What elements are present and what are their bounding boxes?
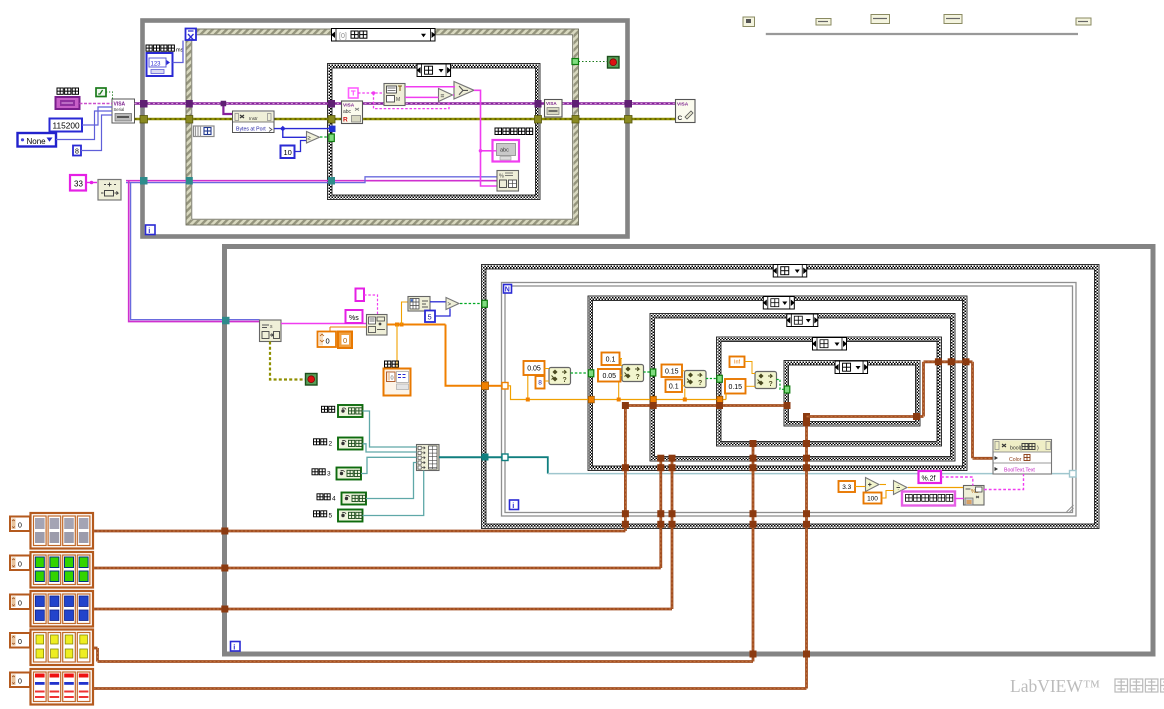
gray divider line top bbox=[766, 33, 1078, 35]
caseA selector bbox=[763, 297, 795, 310]
wire bool2 to build array (teal) bbox=[363, 444, 417, 452]
wire pair magenta horizontal (array out to case1) bbox=[126, 180, 497, 182]
svg-text:Color: Color bbox=[1009, 457, 1022, 463]
numeric constant 0.15 (group3 hi) bbox=[662, 365, 683, 378]
color array 4 (yellow clusters) index box bbox=[10, 633, 30, 648]
brown vertical V4 bbox=[752, 444, 755, 662]
while loop 1 iteration terminal i bbox=[146, 225, 156, 235]
numeric constant 8 (group1 lo) bbox=[536, 376, 545, 389]
purple tunnel on while1 right border bbox=[625, 100, 633, 108]
color array 5 (striped clusters) index box bbox=[10, 673, 30, 688]
teal tunnel while1 left (pair) bbox=[140, 177, 148, 185]
wire green to case B tunnel bbox=[644, 371, 651, 373]
numeric constant 100 bbox=[864, 493, 882, 504]
spreadsheet string to array node (case1) bbox=[497, 171, 519, 192]
svg-text:None: None bbox=[27, 137, 47, 146]
wire bool5 to build array (teal) bbox=[363, 471, 424, 516]
svg-text:i: i bbox=[148, 226, 150, 235]
orange tunnel case A left (bus) bbox=[588, 396, 594, 403]
color array 1 (gray clusters) body bbox=[31, 513, 94, 549]
svg-text:0: 0 bbox=[18, 562, 22, 569]
numeric constant 3.3 bbox=[839, 481, 856, 492]
svg-text:?: ? bbox=[636, 374, 640, 381]
wire comparator to for-loop (green dashed) bbox=[460, 303, 482, 305]
caseB selector bbox=[786, 314, 818, 327]
wire string out to scan node (magenta) bbox=[281, 323, 367, 325]
olive tunnel on case1 right border bbox=[535, 116, 542, 124]
svg-text:100: 100 bbox=[867, 495, 878, 502]
svg-text:5: 5 bbox=[329, 513, 333, 520]
free mini constant 3 top bbox=[871, 15, 890, 24]
numeric constant 0.1 (group3 lo) bbox=[666, 380, 683, 393]
match pattern node bbox=[384, 84, 405, 106]
while loop 1 (serial read loop) border bbox=[143, 21, 628, 237]
label 串口号 (serial port) bbox=[57, 88, 63, 94]
svg-text:2: 2 bbox=[329, 441, 333, 448]
orange bus junction stubs to in-range nodes bbox=[527, 375, 529, 400]
wire 10 to comparator (blue) bbox=[295, 141, 307, 152]
green tunnel case B left bbox=[650, 369, 656, 376]
scan from string node bbox=[367, 315, 388, 336]
boolean control 布尔 bbox=[338, 405, 363, 417]
svg-text:Serial: Serial bbox=[114, 107, 125, 112]
svg-text:BoolText.Text: BoolText.Text bbox=[1004, 468, 1035, 474]
comparator greater-or-equal node bbox=[307, 132, 320, 144]
wires group2 stubs bbox=[620, 358, 623, 360]
free mini constant 5 top bbox=[1076, 18, 1091, 25]
svg-text:R: R bbox=[343, 117, 348, 124]
wire 33 to initialize array (magenta) bbox=[87, 182, 98, 184]
caseD selector bbox=[835, 361, 869, 374]
wire branch to comparator (blue) bbox=[283, 129, 307, 138]
for loop count terminal N bbox=[504, 285, 512, 294]
label 布尔2 bbox=[314, 439, 320, 445]
VISA configure serial port node bbox=[112, 99, 135, 123]
wire pair vertical down to lower loop (magenta) bbox=[129, 181, 260, 322]
olive tunnel on event right border bbox=[572, 116, 579, 124]
svg-text:33: 33 bbox=[74, 180, 83, 189]
divide node bbox=[894, 481, 908, 495]
svg-text:[0]: [0] bbox=[339, 33, 347, 40]
for loop resize corner bbox=[1067, 505, 1074, 512]
numeric constant 0 (first) bbox=[318, 332, 337, 348]
svg-text:abc: abc bbox=[343, 109, 352, 115]
case D frame bbox=[784, 361, 920, 427]
svg-text:8: 8 bbox=[538, 380, 542, 387]
wire orange down to array indicator bbox=[396, 325, 398, 370]
brown wire W1 from color array 1 bbox=[93, 530, 625, 533]
for loop border bbox=[502, 283, 1077, 517]
boolean constant F (green) bbox=[96, 88, 106, 97]
index array node bbox=[408, 297, 430, 312]
svg-text:Inf: Inf bbox=[734, 360, 741, 366]
svg-text:): ) bbox=[1037, 446, 1039, 452]
svg-text:0.1: 0.1 bbox=[606, 356, 616, 363]
color array 4 (yellow clusters) body bbox=[31, 630, 94, 666]
free mini constant 2 top bbox=[816, 19, 831, 26]
case 1 frame bbox=[328, 64, 541, 200]
svg-text:0: 0 bbox=[391, 376, 394, 382]
orange tunnel outer case left bbox=[482, 382, 489, 390]
wire compound output down to buffer indicator (magenta) bbox=[474, 90, 497, 186]
numeric constant 33 bbox=[70, 175, 86, 191]
event structure border bbox=[186, 29, 579, 225]
green tunnel event right border (stop) bbox=[572, 59, 579, 65]
svg-text:=: = bbox=[441, 93, 445, 100]
wire index array to comparator (blue) bbox=[430, 301, 446, 303]
brown wire up right of case D bbox=[922, 362, 925, 417]
brown wire H1 (into case D) bbox=[625, 404, 787, 407]
numeric constant 0.05 (group1 hi) bbox=[524, 361, 545, 375]
numeric constant 0.15 (group4 lo) bbox=[725, 379, 746, 394]
svg-text:0: 0 bbox=[18, 679, 22, 686]
brown wire W2 from color array 2 bbox=[93, 567, 661, 570]
VISA resource name control bbox=[56, 97, 80, 109]
color array 3 (blue clusters) body bbox=[31, 591, 94, 627]
label 布尔 bbox=[322, 406, 328, 412]
wire green to case D tunnel bbox=[777, 380, 785, 390]
svg-text:0.1: 0.1 bbox=[669, 383, 679, 390]
VISA close node bbox=[676, 100, 696, 123]
svg-text:5: 5 bbox=[428, 313, 432, 322]
wire bool3 to build array (teal) bbox=[361, 457, 417, 473]
wire boolean F to config node (green dotted) bbox=[106, 92, 113, 99]
wire light teal long (bool text) bbox=[548, 473, 1070, 475]
in range and coerce node 1 bbox=[549, 368, 571, 385]
format string constant %s bbox=[346, 310, 363, 323]
svg-text:0: 0 bbox=[326, 337, 330, 346]
olive tunnel on case1 left border bbox=[328, 116, 335, 124]
olive tunnel on event left border bbox=[186, 116, 193, 124]
case1 selector label bbox=[417, 64, 452, 77]
svg-text:%s: %s bbox=[349, 315, 359, 322]
svg-text:?: ? bbox=[563, 377, 567, 384]
svg-text:VISA: VISA bbox=[546, 101, 557, 106]
free mini constant 4 top bbox=[944, 15, 962, 24]
wire match out low to equal (magenta) bbox=[405, 96, 439, 98]
equal? node bbox=[439, 89, 453, 102]
brown vertical V1 (to array1 wire) bbox=[624, 406, 627, 532]
svg-text:VISA: VISA bbox=[677, 102, 689, 108]
svg-text:4: 4 bbox=[332, 496, 336, 503]
in range and coerce node 2 bbox=[622, 365, 644, 382]
wire magenta dashed down to equal node bbox=[374, 93, 450, 109]
svg-text:Instr: Instr bbox=[249, 116, 258, 121]
wire orange up to index array bbox=[402, 302, 409, 325]
brown wire W3 from color array 3 bbox=[93, 608, 672, 611]
color array 1 (gray clusters) index box bbox=[10, 517, 30, 532]
svg-text:?: ? bbox=[769, 381, 773, 388]
orange tunnel for loop left (indexing) bbox=[502, 383, 508, 390]
label 布尔3 bbox=[312, 469, 318, 475]
property node bool(门铃) bbox=[993, 440, 1052, 475]
build array node (booleans) bbox=[417, 445, 440, 471]
svg-text:115200: 115200 bbox=[53, 121, 80, 131]
wire 5 to comparator (blue) bbox=[435, 309, 450, 317]
VISA flush node (right of case1) bbox=[545, 100, 563, 118]
teal tunnel case1 left (pair) bbox=[328, 177, 335, 185]
label indicator 电力平均强度 (magenta border) bbox=[902, 492, 955, 506]
wire branch to read buffer indicator bbox=[481, 150, 493, 152]
wire match out top to compound (magenta) bbox=[405, 86, 455, 88]
wire green to case A tunnel bbox=[571, 372, 589, 374]
wire orange bus inside for loop bbox=[508, 386, 720, 400]
wire bool4 to build array (teal) bbox=[366, 463, 417, 499]
svg-text:0: 0 bbox=[343, 336, 347, 345]
wire green to case C tunnel bbox=[706, 378, 717, 380]
wires group1 stubs bbox=[545, 368, 550, 370]
wire teal inside for loop bbox=[508, 457, 548, 473]
svg-text:8: 8 bbox=[75, 149, 79, 156]
compound arithmetic OR node bbox=[454, 82, 474, 100]
color array 2 (green clusters) index box bbox=[10, 556, 30, 571]
caseC selector bbox=[812, 338, 847, 351]
wires arithmetic (orange) bbox=[855, 486, 866, 488]
numeric constant 0.1 (group2 hi) bbox=[602, 353, 620, 366]
case C frame bbox=[717, 337, 942, 446]
brown tunnels on H1 at case B/C/D borders bbox=[650, 402, 657, 409]
event structure timeout terminal bbox=[186, 29, 197, 41]
loop period numeric control bbox=[147, 53, 173, 76]
green tunnel case D left bbox=[784, 386, 790, 393]
brown vertical V5 bbox=[805, 417, 808, 689]
purple tunnel on while1 left border bbox=[140, 100, 148, 108]
svg-text:LabVIEW™: LabVIEW™ bbox=[1010, 676, 1100, 696]
wires group3 stubs bbox=[682, 370, 685, 372]
wire empty string to scan (magenta dashed) bbox=[364, 295, 378, 315]
wire orange into for loop bbox=[489, 385, 503, 387]
numeric constant 115200 bbox=[50, 119, 83, 132]
teal tunnel for loop left (bool array) bbox=[502, 454, 508, 461]
brown wire inside case D to right bbox=[807, 415, 924, 418]
wires group4 stubs bbox=[745, 362, 756, 374]
wire build array output (dark teal) bbox=[439, 456, 502, 458]
label 布尔5 bbox=[314, 511, 320, 517]
string constant 阅 (command) bbox=[194, 126, 215, 137]
purple tunnel on case1 right border bbox=[535, 100, 542, 108]
color array 3 (blue clusters) index box bbox=[10, 595, 30, 610]
orange tunnel case C left (bus) bbox=[717, 396, 723, 403]
color array 2 (green clusters) body bbox=[31, 552, 94, 588]
light tunnel for loop right border bbox=[1070, 471, 1077, 478]
svg-text:VISA: VISA bbox=[343, 103, 355, 109]
wire label to format node (magenta) bbox=[955, 498, 964, 500]
while loop 2 iteration terminal i bbox=[231, 642, 241, 652]
wire format node to property BoolText (magenta dashed) bbox=[984, 474, 1024, 490]
brown wire W5 from color array 5 bbox=[94, 687, 807, 690]
svg-text:bool(: bool( bbox=[1010, 446, 1022, 452]
svg-text:N: N bbox=[505, 287, 510, 294]
in range and coerce node 3 bbox=[685, 371, 707, 388]
VISA purple wire main (config to close) bbox=[135, 102, 677, 105]
purple tunnel on case1 left border bbox=[328, 100, 335, 108]
svg-text:0.05: 0.05 bbox=[527, 366, 541, 373]
boolean control 布尔2 bbox=[338, 438, 363, 450]
green tunnel case1 left (boolean) bbox=[329, 134, 335, 142]
ring constant None (flow control) bbox=[18, 133, 57, 147]
svg-text:0.05: 0.05 bbox=[602, 373, 616, 380]
type cast icon (pink) bbox=[349, 88, 359, 98]
array indicator label 数组 bbox=[385, 361, 391, 367]
svg-text:123: 123 bbox=[151, 62, 162, 68]
stop terminal (red dot) bbox=[306, 374, 318, 386]
wire 8 to node (blue) bbox=[81, 115, 112, 151]
case A frame bbox=[588, 296, 967, 471]
empty string constant (magenta) bbox=[356, 289, 365, 302]
wire None to node (blue) bbox=[56, 111, 112, 140]
svg-text:≥: ≥ bbox=[308, 136, 311, 142]
svg-text:0: 0 bbox=[18, 639, 22, 646]
wire pair blue companion horizontal bbox=[126, 177, 497, 183]
brown wire W4 riser at array bbox=[94, 647, 98, 650]
svg-text:i: i bbox=[233, 642, 235, 651]
wire pink icon to match pattern (magenta dashed) bbox=[358, 92, 384, 94]
brown wire down to property node bbox=[971, 362, 974, 459]
teal tunnel outer case left (bool array) bbox=[482, 454, 489, 461]
svg-text:i: i bbox=[512, 501, 514, 510]
free mini constant 1 top bbox=[743, 17, 755, 27]
olive tunnel on while1 left border bbox=[140, 116, 148, 124]
stop button terminal bbox=[608, 57, 620, 69]
wire error dashed to stop terminal (olive) bbox=[270, 342, 306, 380]
wire 0 constants to scan node (orange stubs) bbox=[329, 327, 331, 332]
case B frame bbox=[650, 314, 955, 462]
numeric constant Inf (group4 hi) bbox=[730, 357, 745, 368]
VISA read node bbox=[342, 101, 363, 124]
brown vertical V2 bbox=[659, 458, 662, 568]
wire VISA resource to config node (magenta dashed) bbox=[80, 103, 113, 105]
svg-text:%.2f: %.2f bbox=[922, 475, 936, 482]
wire bytes at port out (blue) bbox=[274, 128, 335, 130]
numeric constant 10 bbox=[281, 146, 295, 159]
byte array to string node (lower left) bbox=[260, 320, 282, 342]
svg-text:abc: abc bbox=[500, 148, 509, 154]
svg-text:0.15: 0.15 bbox=[665, 368, 679, 375]
color array 5 (striped clusters) body bbox=[31, 669, 94, 705]
svg-text:3.3: 3.3 bbox=[842, 484, 851, 491]
Bytes at Port property node bbox=[233, 111, 275, 133]
VISA wire branch to Bytes at Port property node bbox=[223, 104, 232, 115]
numeric constant 5 (blue) bbox=[425, 311, 435, 323]
svg-text:10: 10 bbox=[284, 148, 292, 157]
read buffer label 调取缓冲区 bbox=[495, 128, 502, 135]
format specifier constant %.2f bbox=[919, 471, 942, 483]
outer case selector bbox=[773, 265, 808, 278]
wire pair vertical down to lower loop (blue) bbox=[131, 183, 260, 320]
brown wire top horizontal over case borders bbox=[924, 360, 973, 363]
label 布尔4 bbox=[317, 494, 323, 500]
initialize array node (beige) bbox=[98, 180, 121, 201]
blue tunnel case1 left (byte count) bbox=[329, 126, 336, 133]
purple tunnel on event left border bbox=[186, 100, 193, 108]
svg-text:?: ? bbox=[698, 380, 702, 387]
svg-text:0.15: 0.15 bbox=[728, 384, 742, 391]
boolean control 布尔4 bbox=[342, 493, 367, 505]
read buffer string indicator bbox=[493, 140, 520, 162]
orange tunnel case B left (bus) bbox=[650, 396, 656, 403]
selector event structure [0] 超时 bbox=[331, 29, 436, 42]
greater? comparator node bbox=[446, 298, 459, 310]
green tunnel case A left bbox=[588, 370, 594, 377]
svg-text:Bytes at Port: Bytes at Port bbox=[236, 127, 266, 133]
svg-text:3: 3 bbox=[327, 471, 331, 478]
wire stop dashed green bbox=[579, 61, 608, 63]
numeric constant 0 (second highlighted) bbox=[338, 332, 352, 349]
boolean control 布尔3 bbox=[337, 468, 362, 480]
wire loop period to timeout terminal (blue) bbox=[173, 41, 184, 63]
loop period ms label 循环周期ms bbox=[146, 45, 152, 51]
svg-text:>: > bbox=[448, 302, 452, 308]
wire equal out to compound (magenta) bbox=[453, 94, 454, 96]
svg-text:M: M bbox=[396, 97, 400, 103]
wire %.2f to format node (magenta dashed) bbox=[941, 477, 973, 486]
multiply node bbox=[866, 478, 880, 492]
green tunnel outer case left (comparator result) bbox=[482, 300, 488, 307]
brown vertical V3 bbox=[671, 458, 674, 609]
array indicator 数组 (orange) bbox=[384, 369, 411, 396]
format into string node bbox=[964, 486, 985, 506]
while loop 2 (main processing loop) border bbox=[225, 247, 1154, 655]
for loop iteration terminal i bbox=[510, 500, 519, 510]
svg-text:0: 0 bbox=[18, 523, 22, 530]
teal tunnel event left (pair) bbox=[186, 177, 193, 185]
purple tunnel on event right border bbox=[572, 100, 579, 108]
wire comparator to green tunnel (green dashed) bbox=[320, 136, 329, 138]
wire 115200 to node (blue) bbox=[82, 107, 112, 125]
wire bool1 to build array (teal) bbox=[363, 411, 417, 447]
svg-text:0: 0 bbox=[18, 601, 22, 608]
svg-text:%: % bbox=[499, 174, 504, 180]
wire scan output main (orange) bbox=[387, 324, 446, 326]
numeric constant 8 (data bits) bbox=[73, 146, 81, 156]
in range and coerce node 4 bbox=[755, 372, 777, 389]
boolean control 布尔5 bbox=[338, 510, 363, 522]
teal tunnel while2 left (pair) bbox=[222, 317, 230, 325]
brown wire W4 from color array 4 bbox=[98, 660, 754, 663]
wire orange main to outer case (orange) bbox=[446, 325, 482, 386]
error wire main (olive dashed) bbox=[135, 118, 677, 121]
svg-text:C: C bbox=[678, 115, 683, 122]
numeric constant 0.05 (group2 lo) bbox=[598, 369, 621, 382]
olive tunnel on while1 right border bbox=[625, 116, 633, 124]
outer case frame bbox=[482, 265, 1100, 529]
green tunnel case C left bbox=[717, 375, 723, 382]
